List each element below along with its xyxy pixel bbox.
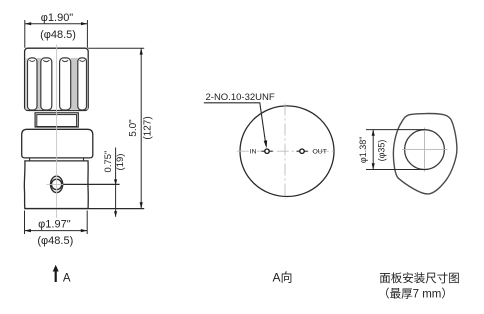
dimension D5 top arrow (372, 130, 375, 136)
dimension D5 top extension line (366, 129, 426, 131)
body bottom line extended (25, 208, 145, 210)
dimension D4 right extension line (86, 211, 88, 235)
dimension D2 top arrow (114, 179, 117, 185)
OUT port tick (297, 150, 308, 152)
knob rib 3 (60, 58, 71, 110)
svg-text:（最厚7 mm）: （最厚7 mm） (378, 288, 453, 301)
centerline left view (56, 45, 58, 219)
svg-text:(φ48.5): (φ48.5) (37, 235, 73, 247)
knob rib 4 (78, 58, 87, 110)
dimension D3 5.0 line (140, 48, 142, 208)
thread note leader arrowhead (264, 140, 267, 148)
svg-text:OUT: OUT (313, 149, 327, 156)
svg-text:面板安装尺寸图: 面板安装尺寸图 (379, 271, 460, 285)
A-view circle (240, 106, 334, 197)
dimension D2 0.75 line (115, 148, 117, 217)
svg-text:(φ48.5): (φ48.5) (40, 29, 76, 41)
dimension D1 left extension line (24, 20, 26, 48)
panel cutout circle (405, 130, 445, 170)
knob shading gap 1 (37, 58, 41, 110)
port crosshair horizontal (47, 183, 67, 185)
dimension D4 line (25, 230, 88, 232)
svg-text:(φ35): (φ35) (376, 140, 386, 162)
knob rib 1 top notch (30, 60, 35, 61)
svg-text:φ1.38": φ1.38" (358, 137, 368, 164)
svg-text:(19): (19) (115, 154, 126, 171)
body outline (24, 161, 88, 209)
neck outer (35, 113, 78, 127)
port outer ellipse (51, 176, 63, 192)
port inner circle (51, 179, 61, 189)
thread note leader (204, 103, 266, 146)
knob shading gap 3 (71, 58, 78, 110)
dimension D1 left arrow (25, 22, 31, 25)
neck inner (37, 115, 77, 127)
knob rib 1 (28, 58, 38, 110)
panel cutout blob (393, 114, 457, 194)
knob outline (25, 48, 89, 110)
dimension D1 line (25, 23, 88, 25)
A-view horizontal centerline (237, 150, 335, 152)
dimension D2 bottom arrow (114, 211, 117, 217)
bonnet cap (22, 129, 93, 158)
knob rib 4 top notch (80, 60, 85, 61)
dimension D1 right arrow (81, 22, 87, 25)
knob shading left edge (25, 58, 27, 110)
dimension D4 left arrow (25, 229, 31, 232)
A-view vertical centerline (284, 104, 286, 200)
view arrow A head (53, 265, 59, 272)
svg-text:5.0": 5.0" (128, 119, 139, 137)
knob top extension line (88, 47, 144, 49)
dimension D1 right extension line (86, 20, 88, 48)
dimension D5 bottom extension line (366, 169, 426, 171)
svg-text:0.75": 0.75" (103, 151, 114, 173)
dimension D4 right arrow (81, 229, 87, 232)
lip tick left (29, 158, 31, 161)
port leader line (63, 183, 119, 185)
dimension D5 line (372, 130, 374, 170)
lip tick right (83, 158, 85, 161)
IN port tick (262, 150, 273, 152)
dimension D5 bottom arrow (372, 163, 375, 169)
knob rib 2 top notch (43, 60, 49, 61)
svg-text:φ1.97": φ1.97" (38, 219, 71, 231)
dimension D3 top arrow (140, 48, 143, 54)
OUT port circle (300, 149, 304, 153)
svg-text:A向: A向 (272, 269, 292, 284)
knob rib 2 (41, 58, 52, 110)
svg-text:(127): (127) (142, 116, 153, 139)
svg-text:A: A (63, 272, 71, 284)
svg-text:φ1.90": φ1.90" (41, 12, 74, 24)
knob shading right edge (86, 58, 88, 110)
dimension D3 bottom arrow (140, 202, 143, 208)
svg-text:IN: IN (250, 149, 257, 156)
panel crosshair horizontal (402, 149, 448, 151)
IN port circle (265, 149, 269, 153)
svg-text:2-NO.10-32UNF: 2-NO.10-32UNF (206, 92, 275, 103)
view arrow A shaft (55, 270, 57, 283)
dimension D4 left extension line (24, 211, 26, 235)
knob rib 3 top notch (62, 60, 68, 61)
panel crosshair vertical (424, 128, 426, 172)
